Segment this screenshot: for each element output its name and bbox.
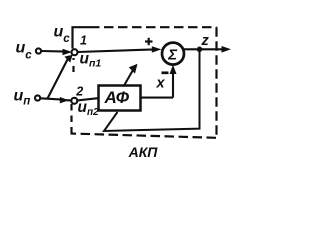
svg-text:x: x: [156, 76, 166, 92]
wire node 1 to summer: [78, 50, 156, 52]
svg-text:Σ: Σ: [167, 46, 178, 63]
node 1: [72, 49, 78, 55]
feedback wire z to АФ control: [104, 49, 200, 131]
input terminal u_c: [36, 48, 41, 53]
output arrow: [200, 48, 225, 50]
summer Σ: [162, 43, 184, 65]
minus sign: [162, 71, 169, 74]
svg-text:2: 2: [75, 85, 83, 99]
diagonal wire u_п branch to node 1: [48, 59, 69, 99]
wire summer to z node: [184, 48, 199, 50]
svg-text:АКП: АКП: [128, 144, 159, 160]
svg-text:z: z: [201, 33, 210, 49]
svg-text:1: 1: [80, 34, 87, 48]
wire node 2 to АФ: [78, 98, 99, 100]
node z (junction dot): [197, 47, 203, 53]
block АФ: [99, 86, 141, 111]
input terminal u_п: [35, 95, 40, 100]
wire АФ to summer (feedback x): [172, 70, 174, 98]
node 2: [71, 98, 77, 104]
svg-text:АФ: АФ: [104, 88, 130, 107]
wire u_п to node 2: [41, 98, 63, 99]
dashed enclosure box АКП: [71, 27, 217, 138]
wire u_c to node 1: [42, 50, 67, 53]
adjustment arrow on АФ: [124, 70, 134, 87]
plus sign: [145, 38, 153, 45]
